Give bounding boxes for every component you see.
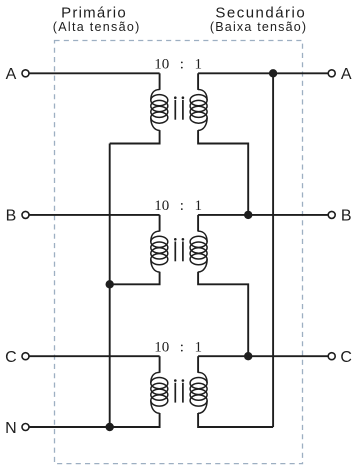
- label Baixa tensao: [210, 20, 307, 34]
- svg-text:B: B: [341, 208, 352, 225]
- svg-text:10 : 1: 10 : 1: [154, 340, 202, 356]
- svg-text:B: B: [6, 208, 17, 225]
- svg-text:Primário: Primário: [61, 4, 127, 21]
- svg-text:C: C: [340, 349, 352, 366]
- label Primario: [61, 4, 127, 21]
- terminal N (primary side): [5, 420, 29, 437]
- wire T3 primary bottom lead: [110, 413, 160, 427]
- svg-text:A: A: [6, 66, 17, 83]
- terminal A (secondary side): [328, 66, 352, 83]
- transformer T3 ratio label 10:1: [154, 340, 202, 356]
- wire primary neutral bus: [109, 144, 111, 428]
- wire T2 primary bottom lead: [110, 272, 160, 285]
- transformer T1 ratio label 10:1: [154, 57, 202, 73]
- wire phase C primary line: [29, 355, 159, 357]
- wire T1 primary bottom lead: [110, 130, 160, 143]
- wire T3 secondary top riser: [197, 356, 199, 373]
- transformer T1 secondary winding: [190, 90, 207, 131]
- transformer T3 secondary winding: [190, 372, 207, 413]
- label Secundario: [215, 4, 306, 21]
- transformer T1 core with polarity dots: [174, 96, 184, 119]
- junction T1 secondary / phase B: [244, 211, 252, 219]
- terminal A (primary side): [6, 66, 29, 83]
- primary/secondary boundary dashed box: [55, 41, 303, 464]
- transformer T2 core with polarity dots: [174, 238, 184, 261]
- svg-text:(Alta tensão): (Alta tensão): [53, 20, 141, 34]
- wire phase B primary line: [29, 214, 159, 216]
- junction T2 primary / neutral bus: [106, 280, 114, 288]
- wire T3 secondary bottom to delta bus: [198, 413, 273, 427]
- wire T2 secondary top riser: [197, 215, 199, 232]
- terminal B (secondary side): [328, 208, 351, 225]
- wire phase B secondary line: [198, 214, 328, 216]
- transformer T2 primary winding: [151, 231, 168, 272]
- transformer T2 secondary winding: [190, 231, 207, 272]
- svg-text:10 : 1: 10 : 1: [154, 57, 202, 73]
- terminal B (primary side): [6, 208, 29, 225]
- svg-text:(Baixa tensão): (Baixa tensão): [210, 20, 307, 34]
- wire phase drop to T3 primary top: [159, 356, 161, 373]
- wire phase N primary line: [29, 426, 159, 428]
- svg-text:N: N: [5, 420, 17, 437]
- transformer T3 core with polarity dots: [174, 379, 184, 402]
- terminal C (primary side): [5, 349, 29, 366]
- label Alta tensao: [53, 20, 141, 34]
- wire phase C secondary line: [198, 355, 328, 357]
- wire phase drop to T2 primary top: [159, 215, 161, 232]
- svg-text:10 : 1: 10 : 1: [154, 198, 202, 214]
- wire T2 secondary bottom to phase C: [198, 272, 248, 357]
- junction T2 secondary / phase C: [244, 352, 252, 360]
- svg-text:A: A: [341, 66, 352, 83]
- svg-text:Secundário: Secundário: [215, 4, 306, 21]
- transformer T2 ratio label 10:1: [154, 198, 202, 214]
- transformer T1 primary winding: [151, 90, 168, 131]
- wire phase A secondary line: [198, 72, 328, 74]
- wire delta bus to phase A: [272, 73, 274, 427]
- svg-text:C: C: [5, 349, 17, 366]
- wire phase drop to T1 primary top: [159, 73, 161, 90]
- junction delta bus / phase A: [269, 69, 277, 77]
- junction neutral bus / N line: [106, 423, 114, 431]
- transformer T3 primary winding: [151, 372, 168, 413]
- terminal C (secondary side): [328, 349, 352, 366]
- wire T1 secondary top riser: [197, 73, 199, 90]
- wire phase A primary line: [29, 72, 159, 74]
- wire T1 secondary bottom to phase B: [198, 130, 248, 215]
